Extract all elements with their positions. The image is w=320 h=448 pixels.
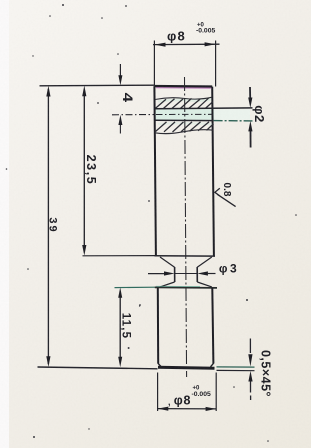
bottom cylinder left edge (157, 288, 159, 364)
part top cylinder right edge (212, 87, 214, 256)
dimension 0.5x45: lower segment with up arrow (250, 381, 252, 400)
wire bottom extension line (part bottom, left) (38, 367, 158, 369)
wire shoulder extension line 23.5 (left) (83, 255, 157, 257)
dimension 39 bottom arrow (46, 356, 50, 367)
drilled hole phi2 lower line inside part (155, 119, 213, 121)
dimension phi2: vertical line upper segment with down arrow (249, 87, 251, 98)
dimension phi8 top: right arrow (205, 42, 216, 46)
bottom cylinder bottom edge (thick) (158, 366, 215, 370)
chamfer extension line lower (217, 369, 255, 371)
part top edge magenta fringe (156, 87, 211, 89)
drilled hole centerline inside part (156, 113, 213, 115)
dimension 39 line (47, 89, 49, 364)
dimension phi8 top: right extension line (215, 41, 217, 87)
dimension 4 lower line with up arrow (119, 124, 121, 134)
part top cylinder left edge (154, 86, 156, 256)
wire hole centerline extension (left, dash-dot) (112, 114, 155, 116)
bottom chamfer right (211, 363, 214, 367)
wire lower-shoulder extension line 11.5 (left, teal tint) (115, 286, 157, 288)
dimension 11.5 top arrow (118, 287, 122, 297)
dimension phi3 leader line left segment (148, 273, 165, 275)
dimension phi8 bottom: left extension line (157, 373, 159, 412)
knurl band lower wavy boundary (155, 130, 214, 134)
knurl tint highlight lower (158, 123, 212, 124)
bottom chamfer left (158, 363, 161, 367)
dimension phi3 left arrow (164, 271, 175, 275)
dimension 23.5 top arrow (82, 86, 86, 97)
dimension 23.5 line (83, 89, 85, 253)
dimension 4 upper line with down arrow (119, 64, 121, 78)
neck left taper lower (160, 282, 175, 287)
drilled hole phi2 lower line extension right (teal) (214, 120, 253, 122)
neck right vertical edge (196, 267, 198, 282)
knurl tint highlight upper (158, 100, 211, 102)
neck left vertical edge (174, 267, 176, 282)
bottom cylinder right edge (212, 288, 213, 364)
dimension phi3 leader line right segment (208, 273, 216, 275)
wire top extension line (part top, left) (40, 84, 156, 87)
dimension phi8 top: left arrow (155, 43, 166, 47)
dimension phi8 bottom: right arrow (206, 407, 217, 411)
surface finish symbol tail (217, 194, 235, 206)
neck right taper upper (197, 257, 212, 267)
dimension phi8 top: left extension line (153, 41, 155, 86)
scan left edge lighter strip (0, 0, 9, 448)
neck left taper upper (160, 257, 175, 267)
dimension phi8 bottom: right extension line (215, 373, 217, 412)
knurl band upper wavy boundary (155, 97, 212, 99)
shoulder line at bottom of top cylinder (154, 255, 215, 257)
surface finish symbol check mark on right edge (215, 188, 220, 196)
bottom cylinder top edge (155, 286, 217, 289)
knurl upper hatch strokes (156, 98, 213, 108)
node cyan fill of drilled hole band (155, 109, 214, 120)
dimension phi8 bottom: left arrow (158, 407, 169, 411)
dimension 39 top arrow (46, 86, 50, 97)
bottom cylinder top edge teal tint (156, 285, 200, 287)
drilled hole phi2 upper line (extends right) (155, 107, 252, 110)
chamfer extension line upper (teal) (217, 366, 255, 368)
dimension phi2: vertical line lower segment with up arrow (250, 131, 252, 148)
dimension phi3 right arrow (197, 271, 208, 275)
dimension phi8 bottom: dim line (158, 408, 217, 410)
dimension 0.5x45: upper segment with down arrow (249, 339, 251, 354)
dimension phi8 top: dim line (153, 43, 220, 45)
part vertical centerline (dash-dot) (185, 77, 187, 377)
neck right taper lower (197, 282, 212, 287)
dimension phi3 line through neck (175, 273, 198, 275)
knurl lower hatch strokes (156, 122, 214, 132)
dimension 11.5 line (119, 291, 121, 364)
dimension 23.5 bottom arrow (82, 245, 86, 256)
part top edge (knurl band top) (154, 85, 212, 88)
dimension 11.5 bottom arrow (118, 357, 122, 367)
